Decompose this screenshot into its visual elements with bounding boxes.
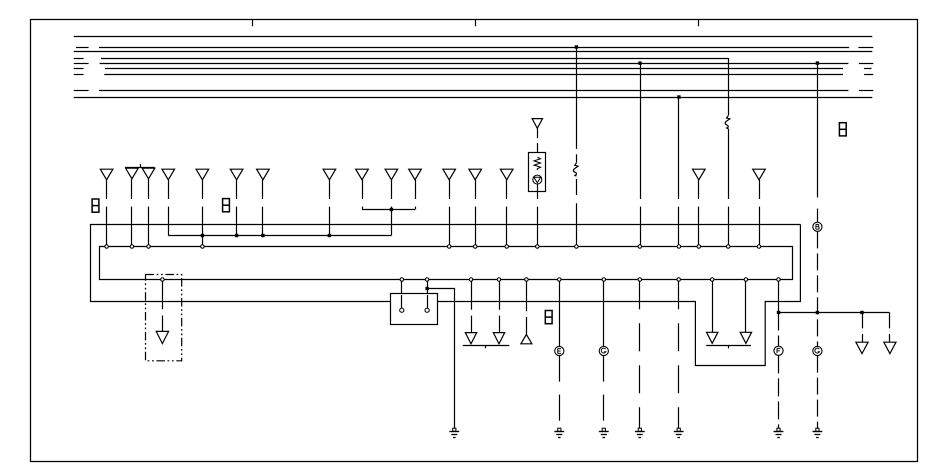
wire bus line 9 [74, 97, 873, 99]
wire from T2 [131, 179, 133, 245]
shield terminal circle x=678.9 on upper shield bus [677, 245, 681, 249]
ground point code F [774, 346, 783, 355]
twist marker on V1 [573, 163, 578, 176]
connector triangle T20 up [521, 334, 532, 343]
wire to node dot x=778 [778, 281, 780, 312]
ground G3 [599, 428, 609, 437]
wire bus line 6 [74, 68, 872, 70]
connector triangle T17 in shield enclosure [156, 331, 168, 343]
shield terminal circle x=449.2 on upper shield bus [447, 245, 451, 249]
shield terminal circle x=427.1 on lower shield bus [425, 278, 429, 282]
lamp symbol inside U1 [533, 175, 542, 184]
wire to T19 [499, 281, 501, 332]
connector triangle T12 [443, 169, 456, 180]
wire bus line 1 [74, 36, 873, 38]
wire from T13 [475, 180, 477, 245]
junction dot V1-bus2 [575, 45, 578, 48]
ground point code G [599, 346, 608, 355]
wire from T3 [148, 179, 150, 245]
shield underline T18-T19 [463, 345, 510, 348]
wire to T18 [471, 281, 473, 332]
wire to junction box pin 2 inside [427, 295, 429, 308]
wire to ground point F [778, 313, 780, 347]
connector triangle T24 [884, 342, 896, 353]
shield terminal circle x=698.8 on upper shield bus [697, 245, 701, 249]
connector triangle T23 [856, 342, 868, 353]
ground G7 [813, 428, 823, 437]
connector triangle T15 [693, 169, 706, 180]
shield terminal circle x=603.8 on lower shield bus [602, 278, 606, 282]
ground G5 [674, 428, 684, 437]
shield underline T21-T22 [706, 346, 751, 349]
junction dot x=778 y=312 [777, 311, 780, 314]
shield terminal circle x=745.9 on lower shield bus [744, 278, 748, 282]
wire to junction box pin 1 [401, 281, 403, 308]
connector triangle T7 [257, 169, 270, 180]
ground point code B [813, 222, 822, 231]
pin circle 2 of junction box [425, 308, 429, 312]
connector triangle T13 [469, 169, 482, 180]
shield terminal circle x=526.4 on lower shield bus [525, 278, 529, 282]
wire shield drain x=640 to ground [639, 281, 641, 428]
junction dot ground-bus x=262.9 [261, 234, 264, 237]
junction dot ground-bus x=236.6 [235, 234, 238, 237]
connector triangle T14 [500, 169, 513, 180]
shield terminal circle x=639.8 on lower shield bus [638, 278, 642, 282]
shield terminal circle x=778.5 on lower shield bus [777, 278, 781, 282]
wire from T7 [262, 180, 264, 236]
wire from U1 down [537, 184, 539, 245]
ground G2 [554, 428, 564, 437]
connector triangle T2 [126, 168, 139, 179]
connector triangle T18 [465, 333, 476, 344]
wire F to ground [778, 355, 780, 428]
coil element inside U1 [534, 157, 540, 170]
wire drop V4 at x=728 from bus line 4 [728, 58, 730, 245]
wire to T23 [862, 313, 864, 343]
junction dot bracket-T10 [390, 208, 393, 211]
junction dot ground-bus x=329.4 [328, 234, 331, 237]
shield terminal circle x=401.8 on lower shield bus [400, 278, 404, 282]
pin circle 1 of junction box [400, 308, 404, 312]
wire shield bus inner loop [100, 247, 793, 280]
connector triangle T22 [740, 332, 751, 343]
shield terminal circle x=471.0 on lower shield bus [469, 278, 473, 282]
wire from T12 [449, 180, 451, 245]
shield terminal circle x=728.2 on upper shield bus [726, 245, 730, 249]
shield terminal circle x=678.7 on lower shield bus [677, 278, 681, 282]
shield terminal circle x=559.3 on lower shield bus [558, 278, 562, 282]
wire drop V3 at x=679 from bus line 9 [678, 97, 680, 245]
wire branch to ground G1 [428, 289, 455, 429]
wire to T20 [526, 281, 528, 334]
connector triangle T3 [142, 168, 155, 179]
wire from T9 [362, 180, 364, 210]
connector triangle T19 [493, 333, 504, 344]
wire B dashed down [817, 231, 819, 346]
shield tie bracket T9-T11 [362, 209, 415, 211]
inline connector marker J1 [92, 199, 99, 212]
ground G1 [449, 428, 459, 437]
wire from T6 [236, 180, 238, 236]
wire to junction box pin 1 inside [401, 295, 403, 308]
shield terminal circle x=537.3 on upper shield bus [536, 245, 540, 249]
wire from T5 [202, 180, 204, 245]
wire from T16 [759, 180, 761, 245]
wire bus line 8 [74, 90, 874, 92]
shield bracket over T2 T3 [125, 164, 155, 168]
wire lateral bus y=312.5 [779, 312, 890, 314]
wire shield drain x=679 to ground [678, 281, 680, 428]
wire from T15 [698, 180, 700, 245]
connector triangle T4 [162, 169, 175, 180]
wire to T22 [745, 281, 747, 332]
shield terminal circle x=712.2 on lower shield bus [710, 278, 714, 282]
connector triangle T9 [356, 169, 369, 180]
wire bus line 5 [74, 63, 874, 65]
connector triangle T16 [753, 169, 766, 180]
wire drop V5 at x=817 from bus line 5 [817, 63, 819, 222]
wire to T21 [712, 281, 714, 332]
junction dot V5-bus5 [816, 61, 819, 64]
junction dot branch [425, 287, 428, 290]
shield terminal circle x=148.5 on upper shield bus [147, 245, 151, 249]
inline connector marker J2 [223, 199, 230, 212]
wire G to ground [603, 356, 605, 429]
junction dot x=862 y=312 [860, 311, 863, 314]
wire drop V2 at x=640 from bus line 5 [640, 63, 642, 245]
junction dot x=817 y=312 [816, 311, 819, 314]
shield terminal circle x=506.7 on upper shield bus [505, 245, 509, 249]
wire bus line 4 [74, 58, 728, 60]
wire from T10 [391, 180, 393, 236]
wire shield loop outer [91, 225, 801, 366]
shield terminal circle x=131.9 on upper shield bus [130, 245, 134, 249]
shield terminal circle x=106.6 on upper shield bus [105, 245, 109, 249]
shield terminal circle x=499.0 on lower shield bus [497, 278, 501, 282]
wire inside shield enclosure [162, 281, 164, 331]
connector triangle T11 [409, 169, 422, 180]
inline connector marker J3 [545, 311, 552, 324]
wire from T4 to ground bus [168, 180, 170, 236]
shield terminal circle x=202.4 on upper shield bus [201, 245, 205, 249]
connector triangle T6 [230, 169, 243, 180]
shield terminal circle x=162.4 on lower shield bus [161, 278, 165, 282]
ground G6 [774, 428, 784, 437]
shield terminal circle x=475.2 on upper shield bus [473, 245, 477, 249]
junction dot V2-bus5 [638, 61, 641, 64]
junction connector box [391, 294, 438, 325]
connector triangle T10 [385, 169, 398, 180]
shield terminal circle x=576.4 on upper shield bus [575, 245, 579, 249]
wire to ground point E [559, 281, 561, 346]
wire E to ground [559, 356, 561, 429]
ground G4 [635, 428, 645, 437]
shield enclosure dash-dot box [146, 275, 182, 361]
connector triangle T1 [100, 169, 113, 180]
junction dot V3-bus9 [677, 95, 680, 98]
twist marker on V4 [725, 116, 730, 129]
wire from T14 [506, 180, 508, 245]
ground point code G lower [813, 346, 822, 355]
wire bus line 7 [74, 74, 874, 76]
antenna amplifier U1 box [529, 153, 546, 192]
wire G lower to ground [817, 356, 819, 429]
wire from T1 to shield bus A [106, 180, 108, 245]
wire bus line 3 [74, 51, 873, 53]
inline connector marker J4 [839, 123, 846, 136]
wire from T8 [329, 180, 331, 236]
junction dot ground-bus x=202.4 [201, 234, 204, 237]
wire drop V1 at x=576 from bus line 2 [576, 47, 578, 245]
connector triangle T8 [323, 169, 336, 180]
wire ground bus y=235 [168, 235, 391, 237]
wire to ground point G [603, 281, 605, 346]
wire bus line 2 [76, 47, 873, 49]
wire antenna feed [537, 128, 539, 157]
shield terminal circle x=639.8 on upper shield bus [638, 245, 642, 249]
wire to T24 [889, 313, 891, 343]
connector triangle T21 [707, 332, 718, 343]
wire to junction box pin 2 [427, 281, 429, 308]
ground point code E [555, 346, 564, 355]
wire from T11 [415, 180, 417, 210]
shield terminal circle x=759.0 on upper shield bus [757, 245, 761, 249]
connector triangle T-ANT [532, 119, 542, 129]
connector triangle T5 [196, 169, 209, 180]
